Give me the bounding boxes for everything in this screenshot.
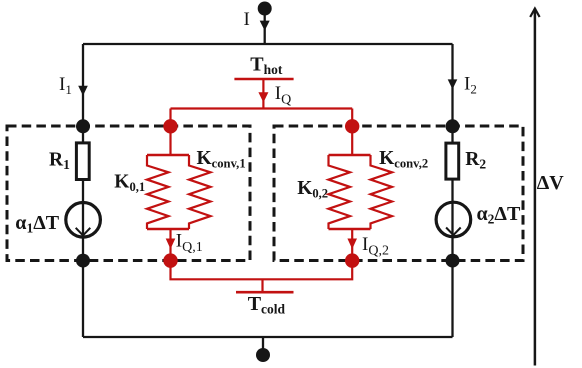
svg-text:Tcold: Tcold bbox=[248, 293, 286, 317]
arrow heat IQ bbox=[258, 92, 268, 102]
dashed box left (TEG leg 1) bbox=[7, 126, 250, 261]
node black left bottom bbox=[76, 254, 90, 268]
wire bottom horizontal bbox=[83, 336, 453, 338]
svg-text:IQ,2: IQ,2 bbox=[362, 234, 389, 259]
wire pair1 bottom stub bbox=[169, 229, 171, 261]
node black right bottom bbox=[446, 254, 460, 268]
node red left bottom bbox=[163, 253, 177, 267]
thermal resistor Kconv,1 bbox=[189, 155, 211, 229]
node red right top bbox=[345, 119, 359, 133]
svg-text:I: I bbox=[244, 9, 250, 30]
Thot bar bbox=[234, 78, 293, 81]
thermal resistor Kconv,2 bbox=[371, 155, 393, 229]
source alpha1 dT bbox=[66, 203, 101, 238]
arrow deltaV bbox=[530, 9, 539, 366]
svg-text:IQ,1: IQ,1 bbox=[176, 231, 203, 256]
svg-text:ΔV: ΔV bbox=[537, 172, 565, 194]
wire red left drop bbox=[169, 109, 171, 156]
arrow current I2 bbox=[448, 79, 458, 89]
wire Thot stub bbox=[262, 79, 264, 109]
svg-text:I1: I1 bbox=[59, 74, 72, 97]
wire Tcold stub bbox=[261, 279, 263, 292]
arrow current I bbox=[260, 21, 270, 31]
svg-text:α2ΔT: α2ΔT bbox=[477, 203, 521, 227]
thermal pair 2 bars bbox=[329, 155, 371, 229]
node red right bottom bbox=[345, 253, 359, 267]
node red left top bbox=[163, 119, 177, 133]
svg-text:K0,1: K0,1 bbox=[114, 171, 145, 194]
wire red top rail bbox=[171, 107, 353, 109]
node top terminal bbox=[258, 2, 272, 16]
arrow heat IQ,2 bbox=[347, 239, 357, 250]
thermal resistor K0,1 bbox=[147, 155, 169, 229]
node bottom terminal bbox=[256, 348, 270, 362]
arrow current I1 bbox=[78, 86, 88, 96]
resistor R2 bbox=[446, 143, 459, 179]
wire top horizontal bbox=[83, 43, 453, 45]
wire red right drop bbox=[351, 109, 353, 156]
svg-text:Kconv,2: Kconv,2 bbox=[379, 148, 428, 171]
wire left branch vertical bbox=[82, 44, 84, 337]
arrow heat IQ,1 bbox=[166, 239, 176, 250]
wire red bottom rail bbox=[171, 261, 353, 280]
svg-text:Kconv,1: Kconv,1 bbox=[197, 148, 246, 171]
source alpha2 dT bbox=[436, 202, 471, 237]
svg-text:α1ΔT: α1ΔT bbox=[15, 212, 59, 236]
resistor R1 bbox=[76, 143, 89, 180]
wire right branch vertical bbox=[451, 44, 453, 337]
node black left top bbox=[76, 119, 90, 133]
node black right top bbox=[446, 119, 460, 133]
wire top input stub bbox=[264, 9, 266, 44]
wire bottom output stub bbox=[262, 337, 264, 355]
dashed box right (TEG leg 2) bbox=[274, 126, 523, 261]
svg-text:K0,2: K0,2 bbox=[297, 178, 328, 201]
svg-text:Thot: Thot bbox=[250, 54, 283, 78]
Tcold bar bbox=[236, 291, 294, 294]
wire pair2 bottom stub bbox=[351, 229, 353, 261]
thermal resistor K0,2 bbox=[329, 155, 351, 229]
svg-text:R2: R2 bbox=[465, 149, 486, 172]
svg-text:I2: I2 bbox=[464, 74, 477, 97]
svg-text:R1: R1 bbox=[49, 150, 70, 173]
svg-text:IQ: IQ bbox=[275, 83, 291, 108]
thermal pair 1 bars bbox=[147, 155, 189, 229]
